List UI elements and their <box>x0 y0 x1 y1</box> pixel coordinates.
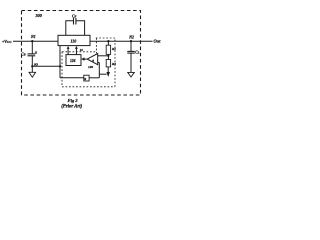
ground arrow under R2 (solid) <box>106 72 110 77</box>
node N1 junction <box>31 40 33 42</box>
svg-text:11: 11 <box>35 51 38 54</box>
svg-text:R: R <box>84 78 86 81</box>
junction at R1 <box>107 40 109 42</box>
junction at x60 <box>59 65 61 67</box>
wire: CB to lower node <box>31 56 33 72</box>
svg-text:120: 120 <box>88 65 93 69</box>
svg-text:A: A <box>91 58 94 62</box>
wire N2 down to CL <box>130 41 132 51</box>
divider tap junction <box>107 55 109 57</box>
wire: amp top input to divider tap <box>98 55 109 57</box>
capacitor CB <box>28 53 36 55</box>
ground arrow under CL (open, down) <box>128 72 135 77</box>
wire R1 to R2 <box>107 54 109 59</box>
bias arrow into 110 (left) <box>67 49 69 55</box>
bias arrow into 110 (right) <box>75 49 77 55</box>
main output wire <box>90 40 153 42</box>
svg-text:CL: CL <box>135 51 139 55</box>
outer dashed box 300 <box>22 11 141 96</box>
inner dashed boundary 120 (stepped) <box>62 51 96 53</box>
svg-text:R2: R2 <box>112 62 116 66</box>
svg-text:CB: CB <box>21 53 25 57</box>
lower junction <box>31 65 33 67</box>
svg-text:R1: R1 <box>112 47 116 51</box>
capacitor CF loop wires <box>66 21 74 36</box>
junction N2 <box>130 40 132 42</box>
svg-text:126: 126 <box>70 59 76 63</box>
wire: N1 down to capacitor CB <box>31 41 33 54</box>
feedback line RF to amp input branch <box>89 77 99 79</box>
wire: VCC to box 110 <box>13 40 58 42</box>
svg-text:N1: N1 <box>30 35 36 39</box>
svg-text:300: 300 <box>35 13 43 18</box>
arrow from amp into 126 <box>84 58 87 60</box>
svg-text:(Prior Art): (Prior Art) <box>61 105 82 110</box>
capacitor CL <box>127 50 135 52</box>
svg-text:N2: N2 <box>128 36 134 40</box>
svg-text:Out: Out <box>154 38 162 43</box>
wire: branch vertical to box 110 bottom and down to feedback line <box>59 46 61 78</box>
wire: amp bottom input stub <box>98 62 100 64</box>
capacitor CF plates <box>73 18 75 25</box>
op-amp triangle 120 <box>87 54 98 65</box>
box 110 <box>58 35 90 45</box>
svg-text:16: 16 <box>80 48 83 52</box>
branch to ground node under R2 <box>99 73 106 75</box>
resistor R2 <box>106 60 110 67</box>
wire CL to ground <box>130 53 132 72</box>
wire to R1 <box>107 41 109 45</box>
wire R2 down <box>107 67 109 72</box>
wire: lower node to amplifier branch <box>32 65 60 67</box>
wire: bottom input down to feedback line <box>98 63 100 78</box>
svg-text:CF: CF <box>72 14 77 18</box>
svg-text:110: 110 <box>71 39 77 44</box>
feedback line to RF <box>60 77 84 79</box>
box 126 <box>66 55 81 66</box>
svg-text:+VCC: +VCC <box>2 39 12 44</box>
resistor RF box <box>84 75 89 81</box>
resistor R1 <box>106 45 110 54</box>
ground arrow (open, down) <box>29 72 36 77</box>
svg-text:Fig 3: Fig 3 <box>68 98 79 103</box>
